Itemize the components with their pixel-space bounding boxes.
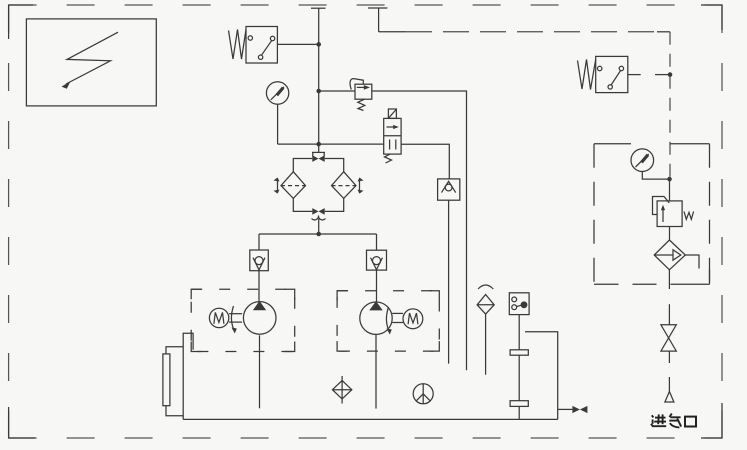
pump unit 2 enclosure (dashed)	[337, 291, 439, 351]
lightning arrow symbol (electric supply)	[62, 32, 119, 89]
wire V2 to check valve CV3	[401, 144, 449, 179]
junction node J5	[668, 72, 673, 77]
pump P2	[360, 301, 392, 409]
air preparation enclosure (dashed)	[594, 144, 710, 285]
pump P1	[243, 301, 276, 408]
filler breather B1 (diamond cross)	[332, 376, 351, 404]
shutoff valve V7	[661, 304, 676, 363]
wire: control boundary dash-dot line	[368, 8, 670, 179]
pressure gauge G2	[631, 149, 670, 179]
wire main to relief valve	[319, 90, 355, 92]
wire V4 to manifold	[318, 219, 320, 234]
check valve CV3	[438, 179, 460, 364]
sight level gauge LG1	[163, 347, 183, 416]
solenoid valve V2	[384, 109, 401, 163]
pressure gauge G1	[266, 82, 288, 144]
junction node J2	[316, 89, 321, 94]
junction node J6	[667, 177, 672, 182]
wire S1 to main line	[277, 43, 318, 45]
air filter F3	[654, 227, 699, 290]
thermometer TI1	[413, 384, 433, 404]
char kou	[685, 417, 696, 427]
char qi	[669, 414, 681, 428]
filter F2 (right) with clogging indicator	[332, 172, 364, 199]
pressure switch S1	[229, 27, 278, 64]
wire: bridge rails	[293, 159, 343, 212]
electric control box E1	[26, 19, 156, 106]
motor M2 with coupling	[386, 307, 422, 335]
filter F1 (left) with clogging indicator	[274, 172, 306, 199]
drain valve V5	[558, 406, 588, 413]
pressure switch S2	[578, 56, 671, 92]
node P (pressure outlet) top tick	[311, 7, 326, 9]
wire V1 outlet to tank drop	[372, 91, 467, 370]
pressure regulator V6	[653, 179, 694, 226]
junction node J1	[316, 42, 321, 47]
bridge shutoff valve V3 (top)	[312, 152, 325, 162]
char jin	[651, 414, 666, 426]
wire: pump manifold	[259, 233, 377, 235]
air breather B2	[477, 285, 494, 375]
motor M1 with coupling	[209, 306, 242, 334]
relief valve V1	[350, 79, 372, 111]
label text: 进气口 air inlet (drawn glyph strokes)	[651, 414, 696, 428]
check valve CV1 (pump 1)	[250, 234, 268, 301]
air inlet port symbol	[665, 377, 674, 402]
tank T1 outline	[183, 332, 558, 420]
bridge shutoff valve V4 (bottom)	[312, 208, 326, 220]
junction node J3	[316, 142, 321, 147]
wire: main pressure line	[318, 8, 320, 152]
junction node J4	[316, 232, 321, 237]
check valve CV2 (pump 2)	[367, 234, 387, 302]
wire G1/main to solenoid valve V2	[278, 143, 384, 145]
level switch LS1 with float rod	[509, 293, 529, 420]
pump unit 1 enclosure (dashed)	[191, 289, 295, 351]
